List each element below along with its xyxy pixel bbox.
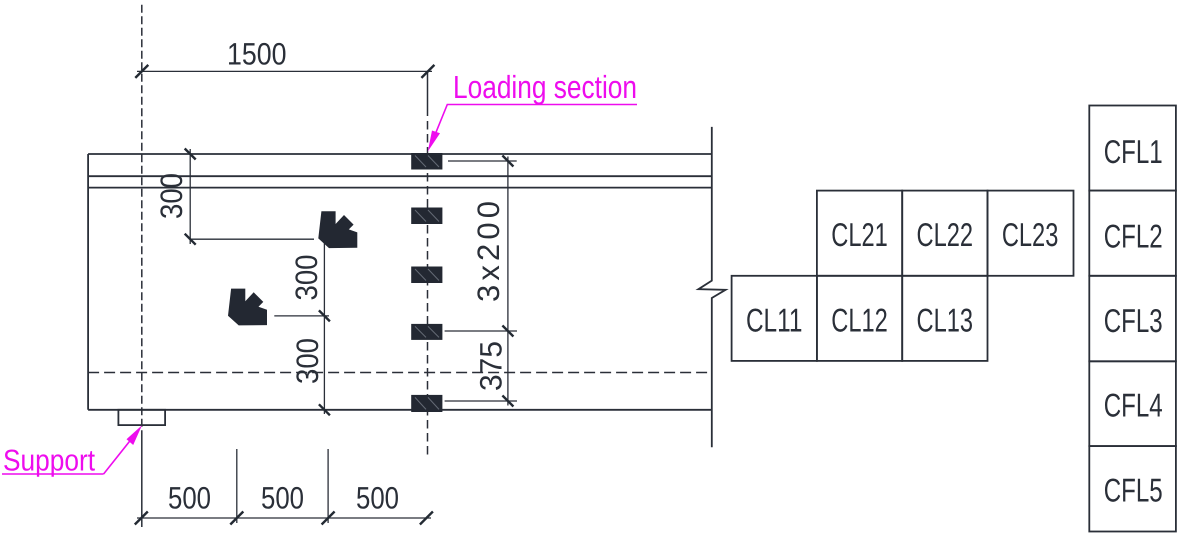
svg-text:CL23: CL23 bbox=[1002, 216, 1059, 253]
svg-text:CFL1: CFL1 bbox=[1104, 133, 1163, 170]
svg-text:375: 375 bbox=[474, 341, 509, 391]
svg-text:300: 300 bbox=[289, 255, 324, 301]
svg-text:CFL4: CFL4 bbox=[1104, 387, 1163, 424]
svg-text:300: 300 bbox=[154, 173, 189, 219]
svg-text:500: 500 bbox=[261, 481, 304, 516]
svg-text:CL13: CL13 bbox=[917, 301, 974, 338]
svg-text:Support: Support bbox=[3, 445, 96, 478]
svg-text:CL21: CL21 bbox=[831, 216, 888, 253]
svg-text:1500: 1500 bbox=[227, 36, 287, 71]
svg-text:3x200: 3x200 bbox=[471, 201, 506, 302]
svg-text:Loading section: Loading section bbox=[453, 69, 637, 105]
svg-text:CL11: CL11 bbox=[746, 301, 803, 338]
svg-text:CFL5: CFL5 bbox=[1104, 472, 1163, 509]
svg-text:500: 500 bbox=[168, 481, 211, 516]
svg-text:300: 300 bbox=[290, 338, 325, 384]
svg-text:CFL3: CFL3 bbox=[1104, 302, 1163, 339]
svg-text:CL12: CL12 bbox=[831, 301, 888, 338]
svg-text:500: 500 bbox=[356, 481, 399, 516]
svg-text:CFL2: CFL2 bbox=[1104, 218, 1163, 255]
svg-text:CL22: CL22 bbox=[917, 216, 974, 253]
